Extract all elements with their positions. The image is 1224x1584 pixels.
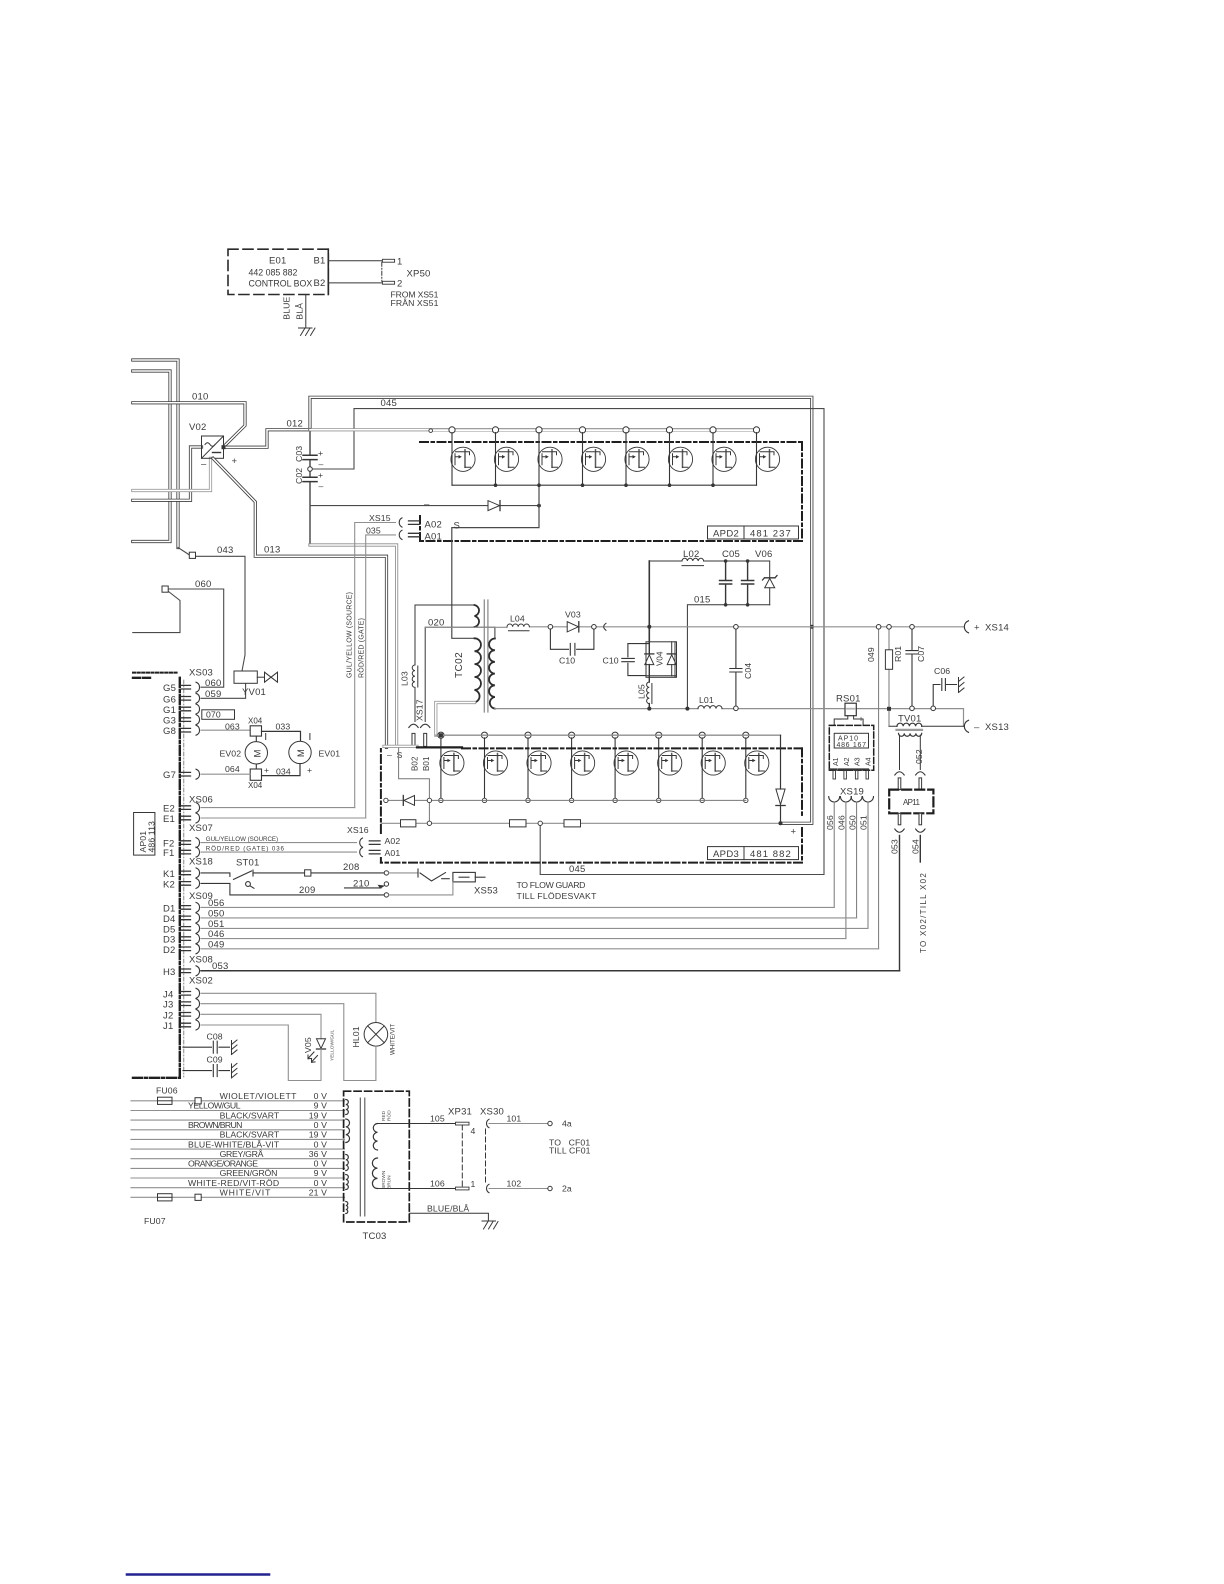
svg-text:033: 033 — [276, 722, 291, 732]
svg-text:060: 060 — [195, 579, 211, 590]
terminal square on 208 — [305, 870, 311, 876]
wire TV01 secondary leads — [900, 735, 921, 770]
capacitor C05 (first) — [720, 561, 732, 605]
transistor APD2 Q3 — [536, 427, 562, 485]
svg-text:060: 060 — [205, 678, 221, 689]
wire 063 G8 to X04 — [201, 729, 250, 731]
svg-text:EV01: EV01 — [319, 748, 341, 758]
wire 051 — [867, 802, 869, 928]
wire TC03 tap BLUE-WHITE/BLÅ-VIT 0 V — [131, 1148, 345, 1150]
svg-text:045: 045 — [569, 864, 585, 875]
board AP01 bottom edge — [133, 1077, 180, 1079]
svg-text:XS14: XS14 — [985, 623, 1009, 634]
connector XS16 socket F1 — [360, 848, 363, 857]
transistor APD2 Q7 — [710, 427, 736, 485]
board APD2 border (dashed) — [420, 442, 802, 541]
svg-text:056: 056 — [208, 898, 224, 909]
wire E1 row — [201, 817, 366, 819]
board AP11 (dashed box) — [889, 790, 933, 814]
wire minus rail — [497, 709, 964, 727]
control box E01 text — [249, 256, 326, 289]
svg-text:050: 050 — [848, 815, 858, 830]
node on resistor rail — [427, 821, 431, 825]
wire bus S branch (gray double) — [310, 545, 397, 746]
pin J4 — [163, 988, 200, 1000]
svg-text:–: – — [974, 722, 980, 733]
svg-text:V04: V04 — [656, 651, 665, 666]
diode APD3 gate clamp — [403, 796, 414, 806]
wire TC03 tap WIOLET/VIOLETT 0 V — [131, 1100, 345, 1102]
chassis ground at C09 — [232, 1063, 238, 1078]
pin G7 — [163, 769, 200, 781]
junction V02 right pin — [222, 445, 226, 449]
diode module V04 (box) — [646, 642, 677, 678]
node circles APD3 source rail — [439, 798, 748, 802]
svg-text:C02: C02 — [294, 468, 304, 484]
svg-text:A4: A4 — [865, 757, 872, 766]
svg-text:BLÅ: BLÅ — [295, 303, 305, 320]
transformer TC03 secondary windings — [372, 1124, 377, 1189]
diode APD3 freewheel right — [776, 789, 785, 806]
svg-text:208: 208 — [343, 862, 359, 873]
thermal switch ST01 — [234, 870, 255, 888]
junction 012 x bus — [308, 428, 312, 432]
svg-text:B02: B02 — [411, 756, 420, 771]
wire 043 feed (double, from page left) — [133, 360, 178, 548]
AP11 bottom pins — [898, 813, 901, 825]
svg-text:RED: RED — [381, 1110, 387, 1121]
svg-text:2: 2 — [397, 279, 402, 290]
resistor APD3 R-b — [510, 820, 527, 827]
svg-text:CONTROL BOX: CONTROL BOX — [249, 279, 313, 289]
svg-text:19 V: 19 V — [309, 1130, 327, 1140]
board AP01 corner dash — [133, 677, 152, 679]
junction dots C05/V06 — [724, 559, 750, 606]
svg-text:TO X02/TILL X02: TO X02/TILL X02 — [919, 873, 928, 953]
pin D4 — [163, 913, 200, 925]
wire S entry pair (gray double) — [384, 745, 417, 748]
svg-text:FU07: FU07 — [144, 1216, 166, 1226]
svg-text:A02: A02 — [385, 836, 401, 846]
junction bus x plus-rail — [810, 625, 814, 629]
svg-text:FRÅN XS51: FRÅN XS51 — [391, 298, 439, 308]
wire 020 to XS17-B01 — [425, 627, 495, 721]
label box APD2 481 237 — [708, 526, 799, 539]
wire V04 left diode path — [648, 642, 650, 682]
connector XS53 body — [453, 872, 475, 882]
wire 012 rail continuation — [430, 428, 757, 430]
diode APD2 freewheel — [488, 501, 500, 511]
capacitor C03 — [303, 455, 317, 459]
svg-text:E2: E2 — [163, 804, 175, 815]
svg-text:049: 049 — [208, 939, 224, 950]
svg-text:B1: B1 — [314, 256, 326, 267]
footer blue line — [127, 1573, 269, 1576]
connector XS15 plug pins — [409, 521, 420, 537]
pin K1 — [163, 868, 200, 880]
svg-text:X04: X04 — [248, 717, 263, 726]
transistor APD2 Q2 — [492, 427, 518, 485]
svg-text:V02: V02 — [189, 422, 207, 433]
svg-text:V05: V05 — [303, 1037, 313, 1053]
svg-text:L03: L03 — [400, 671, 410, 686]
svg-text:105: 105 — [430, 1114, 445, 1124]
svg-text:XS30: XS30 — [480, 1107, 504, 1118]
svg-text:K2: K2 — [163, 879, 175, 890]
svg-text:XS06: XS06 — [189, 795, 213, 806]
inductor L05 — [647, 682, 652, 709]
svg-text:E01: E01 — [269, 256, 287, 267]
svg-text:+: + — [318, 448, 323, 458]
lamp HL01 — [364, 1023, 388, 1047]
svg-text:486 167: 486 167 — [837, 742, 867, 749]
capacitor C08 — [183, 1041, 230, 1053]
board AP01 top edge (dotted) — [133, 672, 178, 674]
svg-text:AP11: AP11 — [903, 798, 920, 807]
svg-text:TC03: TC03 — [363, 1231, 387, 1242]
terminal square 043 — [189, 552, 195, 558]
svg-text:013: 013 — [264, 545, 280, 556]
jumper 070 — [202, 710, 235, 720]
svg-text:S: S — [397, 750, 403, 760]
svg-text:GREY/GRÅ: GREY/GRÅ — [220, 1149, 264, 1159]
svg-text:0 V: 0 V — [314, 1091, 327, 1101]
wire J2 to V05 — [201, 1014, 321, 1039]
transistor APD2 Q1 — [449, 427, 475, 485]
wire E2 row — [201, 807, 355, 809]
wire 043 run — [178, 548, 245, 672]
svg-text:063: 063 — [225, 722, 240, 732]
connector XS30 body — [485, 1129, 487, 1183]
inductor L01 — [698, 706, 722, 709]
pin J3 — [163, 999, 200, 1011]
svg-text:F1: F1 — [163, 848, 175, 859]
svg-text:36 V: 36 V — [309, 1149, 327, 1159]
svg-text:049: 049 — [866, 647, 876, 662]
diode V04 left — [645, 654, 654, 665]
svg-text:XS16: XS16 — [347, 825, 369, 835]
svg-text:J1: J1 — [163, 1021, 173, 1032]
transistor APD3 Q1 — [438, 732, 464, 800]
svg-text:XS17: XS17 — [415, 699, 425, 721]
junction dots on rails — [647, 625, 689, 711]
wire TC03 tap BROWN/BRUN 0 V — [131, 1129, 345, 1131]
wire APD3 top bus (dark) — [417, 746, 462, 748]
svg-text:BLUE: BLUE — [282, 297, 292, 320]
svg-text:EV02: EV02 — [220, 748, 242, 758]
wire 210 reference arrow — [345, 887, 382, 889]
svg-text:053: 053 — [890, 839, 900, 854]
svg-text:1: 1 — [471, 1179, 476, 1189]
wire 033 to EV01 — [262, 731, 301, 748]
chassis ground at E01 — [299, 328, 316, 336]
label box AP10 486 167 — [834, 733, 868, 748]
svg-text:J4: J4 — [163, 989, 173, 1000]
svg-text:XP50: XP50 — [407, 268, 431, 279]
svg-text:056: 056 — [825, 815, 835, 830]
label box APD3 481 882 — [708, 847, 799, 860]
pin F1 — [163, 847, 200, 859]
svg-text:C03: C03 — [294, 446, 304, 462]
connector XS17 socket left — [409, 724, 418, 727]
svg-text:012: 012 — [287, 419, 303, 430]
sockets below AP11 — [895, 829, 925, 832]
pin D2 — [163, 944, 200, 956]
svg-text:102: 102 — [507, 1179, 522, 1189]
board AP01 right edge (dash-dot) — [179, 678, 181, 1078]
wire 012 rail (gray double) — [310, 428, 430, 431]
svg-text:M: M — [296, 749, 307, 757]
svg-text:209: 209 — [299, 885, 315, 896]
svg-text:B2: B2 — [314, 278, 326, 289]
wire plus rail — [425, 626, 963, 629]
pin K2 — [163, 878, 200, 890]
wire V05 to J1 — [201, 1025, 321, 1081]
svg-text:H3: H3 — [163, 967, 176, 978]
wire 053 row — [201, 970, 900, 972]
polarity tick EV01 — [309, 734, 311, 740]
flow switch contact — [418, 869, 449, 881]
svg-text:S: S — [454, 521, 461, 532]
pin G3 — [163, 715, 200, 727]
pin E1 — [163, 813, 200, 825]
diode V04 right — [667, 642, 676, 676]
resistor APD3 R-a — [401, 820, 416, 827]
svg-text:054: 054 — [910, 839, 920, 854]
svg-text:0 V: 0 V — [314, 1159, 327, 1169]
svg-text:+: + — [318, 470, 323, 480]
pin G1 — [163, 704, 200, 716]
svg-text:A01: A01 — [425, 532, 443, 543]
wire V02 AC input (double) — [133, 447, 202, 500]
fuse FU07 — [158, 1194, 173, 1201]
wire 015 — [687, 605, 769, 708]
svg-text:C10: C10 — [603, 656, 619, 666]
capacitor C04 — [730, 629, 742, 706]
junction dots APD2 source rail — [494, 483, 715, 487]
wire 208 to flow switch — [389, 872, 418, 874]
wire 101 — [489, 1123, 548, 1125]
wire APD2 source rail — [452, 484, 757, 486]
connector XP31 pin 4 — [456, 1122, 470, 1125]
svg-text:21 V: 21 V — [309, 1188, 327, 1198]
wire BLUE/BLA center tap — [409, 1213, 488, 1220]
connector XP50 pin 1 — [382, 259, 394, 262]
svg-text:K1: K1 — [163, 869, 175, 880]
svg-text:G1: G1 — [163, 705, 176, 716]
wire 049 — [878, 629, 880, 949]
svg-text:1: 1 — [397, 256, 402, 267]
wire 034 EV01 bottom — [262, 764, 301, 776]
wire TC03 tap GREY/GRÅ 36 V — [131, 1158, 345, 1160]
svg-text:G7: G7 — [163, 770, 176, 781]
svg-text:19 V: 19 V — [309, 1110, 327, 1120]
chassis ground at C06 — [959, 677, 965, 693]
wire XS53 out — [475, 876, 485, 878]
svg-text:TC02: TC02 — [454, 652, 465, 678]
svg-text:XS53: XS53 — [474, 886, 498, 897]
wire 209 — [201, 883, 384, 895]
junction right leg / rail — [779, 821, 783, 825]
node joint on 012 rail — [429, 429, 433, 433]
wire S link (source rail to TC02 tap) — [452, 485, 539, 638]
transistor APD3 Q3 — [525, 732, 551, 800]
svg-text:481 237: 481 237 — [750, 529, 791, 540]
svg-text:C10: C10 — [559, 656, 575, 666]
wire APD3 source/diode row — [386, 799, 746, 801]
svg-text:0 V: 0 V — [314, 1139, 327, 1149]
svg-text:BRUN: BRUN — [387, 1175, 393, 1189]
transistor APD2 Q8 — [753, 427, 779, 485]
node 045 tap (circle between C03/C02) — [308, 467, 313, 472]
capacitor C05 (second) — [742, 561, 754, 605]
svg-text:C04: C04 — [743, 663, 753, 679]
node 208 — [384, 871, 388, 875]
AP10 pins — [833, 771, 869, 779]
svg-text:101: 101 — [507, 1114, 522, 1124]
svg-text:9 V: 9 V — [314, 1101, 327, 1111]
svg-text:FU06: FU06 — [156, 1086, 178, 1096]
wire RS01 sense leads — [834, 716, 863, 726]
svg-text:C07: C07 — [916, 646, 926, 662]
svg-text:2a: 2a — [562, 1184, 572, 1194]
wire TC03 tap BLACK/SVART 19 V — [131, 1119, 345, 1121]
svg-text:059: 059 — [205, 689, 221, 700]
svg-text:X04: X04 — [248, 781, 263, 790]
wire F1 to XS16 — [201, 851, 357, 853]
pin J2 — [163, 1009, 200, 1021]
connector XS30 socket 1 — [487, 1184, 489, 1192]
wire APD3 drain rail — [436, 734, 781, 736]
wire 045 — [310, 409, 824, 875]
wire S internal link — [399, 748, 430, 823]
node after L04 — [548, 625, 553, 630]
svg-text:050: 050 — [208, 909, 224, 920]
svg-text:–: – — [387, 750, 392, 760]
transistor APD2 Q5 — [623, 427, 649, 485]
svg-text:V06: V06 — [755, 549, 773, 560]
fan motor EV01 — [289, 741, 311, 763]
svg-text:G5: G5 — [163, 683, 176, 694]
wire 051 row — [201, 927, 868, 929]
junction TV01/R01 at minus rail — [887, 707, 891, 711]
AP10 pin bars — [830, 768, 868, 770]
connector XS16 plug pins — [369, 841, 380, 854]
wire G7 to X04 — [201, 773, 250, 775]
svg-text:GUL/YELLOW (SOURCE): GUL/YELLOW (SOURCE) — [206, 836, 278, 843]
diode V03 — [567, 622, 579, 632]
inductor L03 — [412, 665, 418, 722]
wire 105 — [378, 1123, 456, 1125]
wire TC02 secondary bottom to minus rail — [495, 708, 497, 710]
svg-text:L05: L05 — [637, 684, 647, 699]
svg-text:XS19: XS19 — [840, 787, 864, 798]
svg-text:BROWN/BRUN: BROWN/BRUN — [188, 1120, 243, 1130]
wire TC03 tap BLACK/SVART 19 V — [131, 1138, 345, 1140]
svg-text:015: 015 — [694, 595, 710, 606]
pin D3 — [163, 934, 200, 946]
valve YV01 — [257, 672, 277, 682]
svg-text:L01: L01 — [699, 695, 714, 705]
wire 012 (double) from V02 to bus — [224, 430, 311, 447]
transistor APD3 Q5 — [612, 732, 638, 800]
transformer TC03 primary windings — [346, 1100, 350, 1214]
svg-text:052: 052 — [914, 749, 924, 764]
svg-text:481 882: 481 882 — [750, 849, 791, 860]
control box E01 (dashed outline) — [228, 249, 328, 294]
connector XS17 socket right — [421, 724, 430, 727]
node 045 tap on resistor rail — [538, 821, 542, 825]
transformer TC03 core — [360, 1098, 365, 1216]
svg-text:RS01: RS01 — [836, 694, 861, 705]
svg-text:HL01: HL01 — [351, 1026, 361, 1047]
wire J4 to HL01 — [201, 993, 376, 1022]
wire APD3 right leg with diode — [780, 735, 782, 823]
svg-text:0 V: 0 V — [314, 1178, 327, 1188]
wire V02 AC input 2 (gray double) — [133, 458, 211, 490]
label box AP01 486 113 — [134, 813, 155, 856]
svg-text:+: + — [232, 456, 238, 467]
transformer TC02 core — [484, 600, 488, 712]
svg-text:TILL FLÖDESVAKT: TILL FLÖDESVAKT — [517, 891, 598, 901]
svg-text:+: + — [974, 623, 980, 634]
wire bus C-stack segment — [309, 430, 311, 545]
connector pair TV01/AP11 sockets — [895, 772, 925, 775]
svg-text:D2: D2 — [163, 945, 176, 956]
svg-text:–: – — [319, 481, 324, 491]
capacitor C02 — [303, 477, 317, 481]
svg-text:A1: A1 — [833, 757, 840, 766]
svg-text:ORANGE/ORANGE: ORANGE/ORANGE — [188, 1159, 258, 1169]
svg-text:043: 043 — [217, 545, 233, 556]
svg-text:A3: A3 — [855, 757, 862, 766]
wire APD2 minus input with diode — [310, 505, 540, 507]
svg-text:–: – — [424, 499, 430, 510]
wire E01 to chassis ground (BLUE/BLA) — [305, 295, 307, 328]
transformer TC03 box (dashed) — [344, 1091, 410, 1222]
svg-text:RÖD/RED (GATE) 036: RÖD/RED (GATE) 036 — [206, 846, 285, 853]
wire APD3 gate resistor rail — [381, 822, 781, 824]
svg-text:XP31: XP31 — [448, 1107, 472, 1118]
svg-text:G8: G8 — [163, 726, 176, 737]
svg-text:J3: J3 — [163, 1000, 173, 1011]
wire 035 XS15-A01 to XS06-E1 — [366, 535, 396, 818]
svg-text:BLACK/SVART: BLACK/SVART — [220, 1130, 280, 1140]
wire 020 top lead — [415, 605, 475, 665]
wire 046 — [845, 802, 847, 939]
rectifier V02 — [202, 436, 224, 458]
wire 056 row — [201, 906, 834, 908]
inductor L02 — [649, 558, 725, 565]
wire TC02 secondary top to 020 node — [494, 627, 496, 638]
wire TC03 tap WHITE-RED/VIT-RÖD 0 V — [131, 1187, 345, 1189]
wire B2 to XP50 pin 2 — [328, 282, 382, 284]
transistor APD2 Q4 — [579, 427, 605, 485]
fan motor EV02 — [255, 736, 257, 769]
svg-text:XS08: XS08 — [189, 955, 213, 966]
svg-text:046: 046 — [836, 815, 846, 830]
svg-text:010: 010 — [192, 392, 208, 403]
pin G8 — [163, 725, 200, 737]
connector XS13 — [964, 720, 968, 732]
node after V03 — [592, 625, 597, 630]
wire 050 row — [201, 917, 857, 919]
AP11 top pins — [898, 778, 901, 790]
wire 013 from V02 plus (double) — [213, 458, 387, 747]
wire TC03 tap WHITE/VIT 21 V — [131, 1196, 345, 1198]
wire 208 — [253, 872, 384, 874]
svg-text:WIOLET/VIOLETT: WIOLET/VIOLETT — [220, 1091, 298, 1101]
